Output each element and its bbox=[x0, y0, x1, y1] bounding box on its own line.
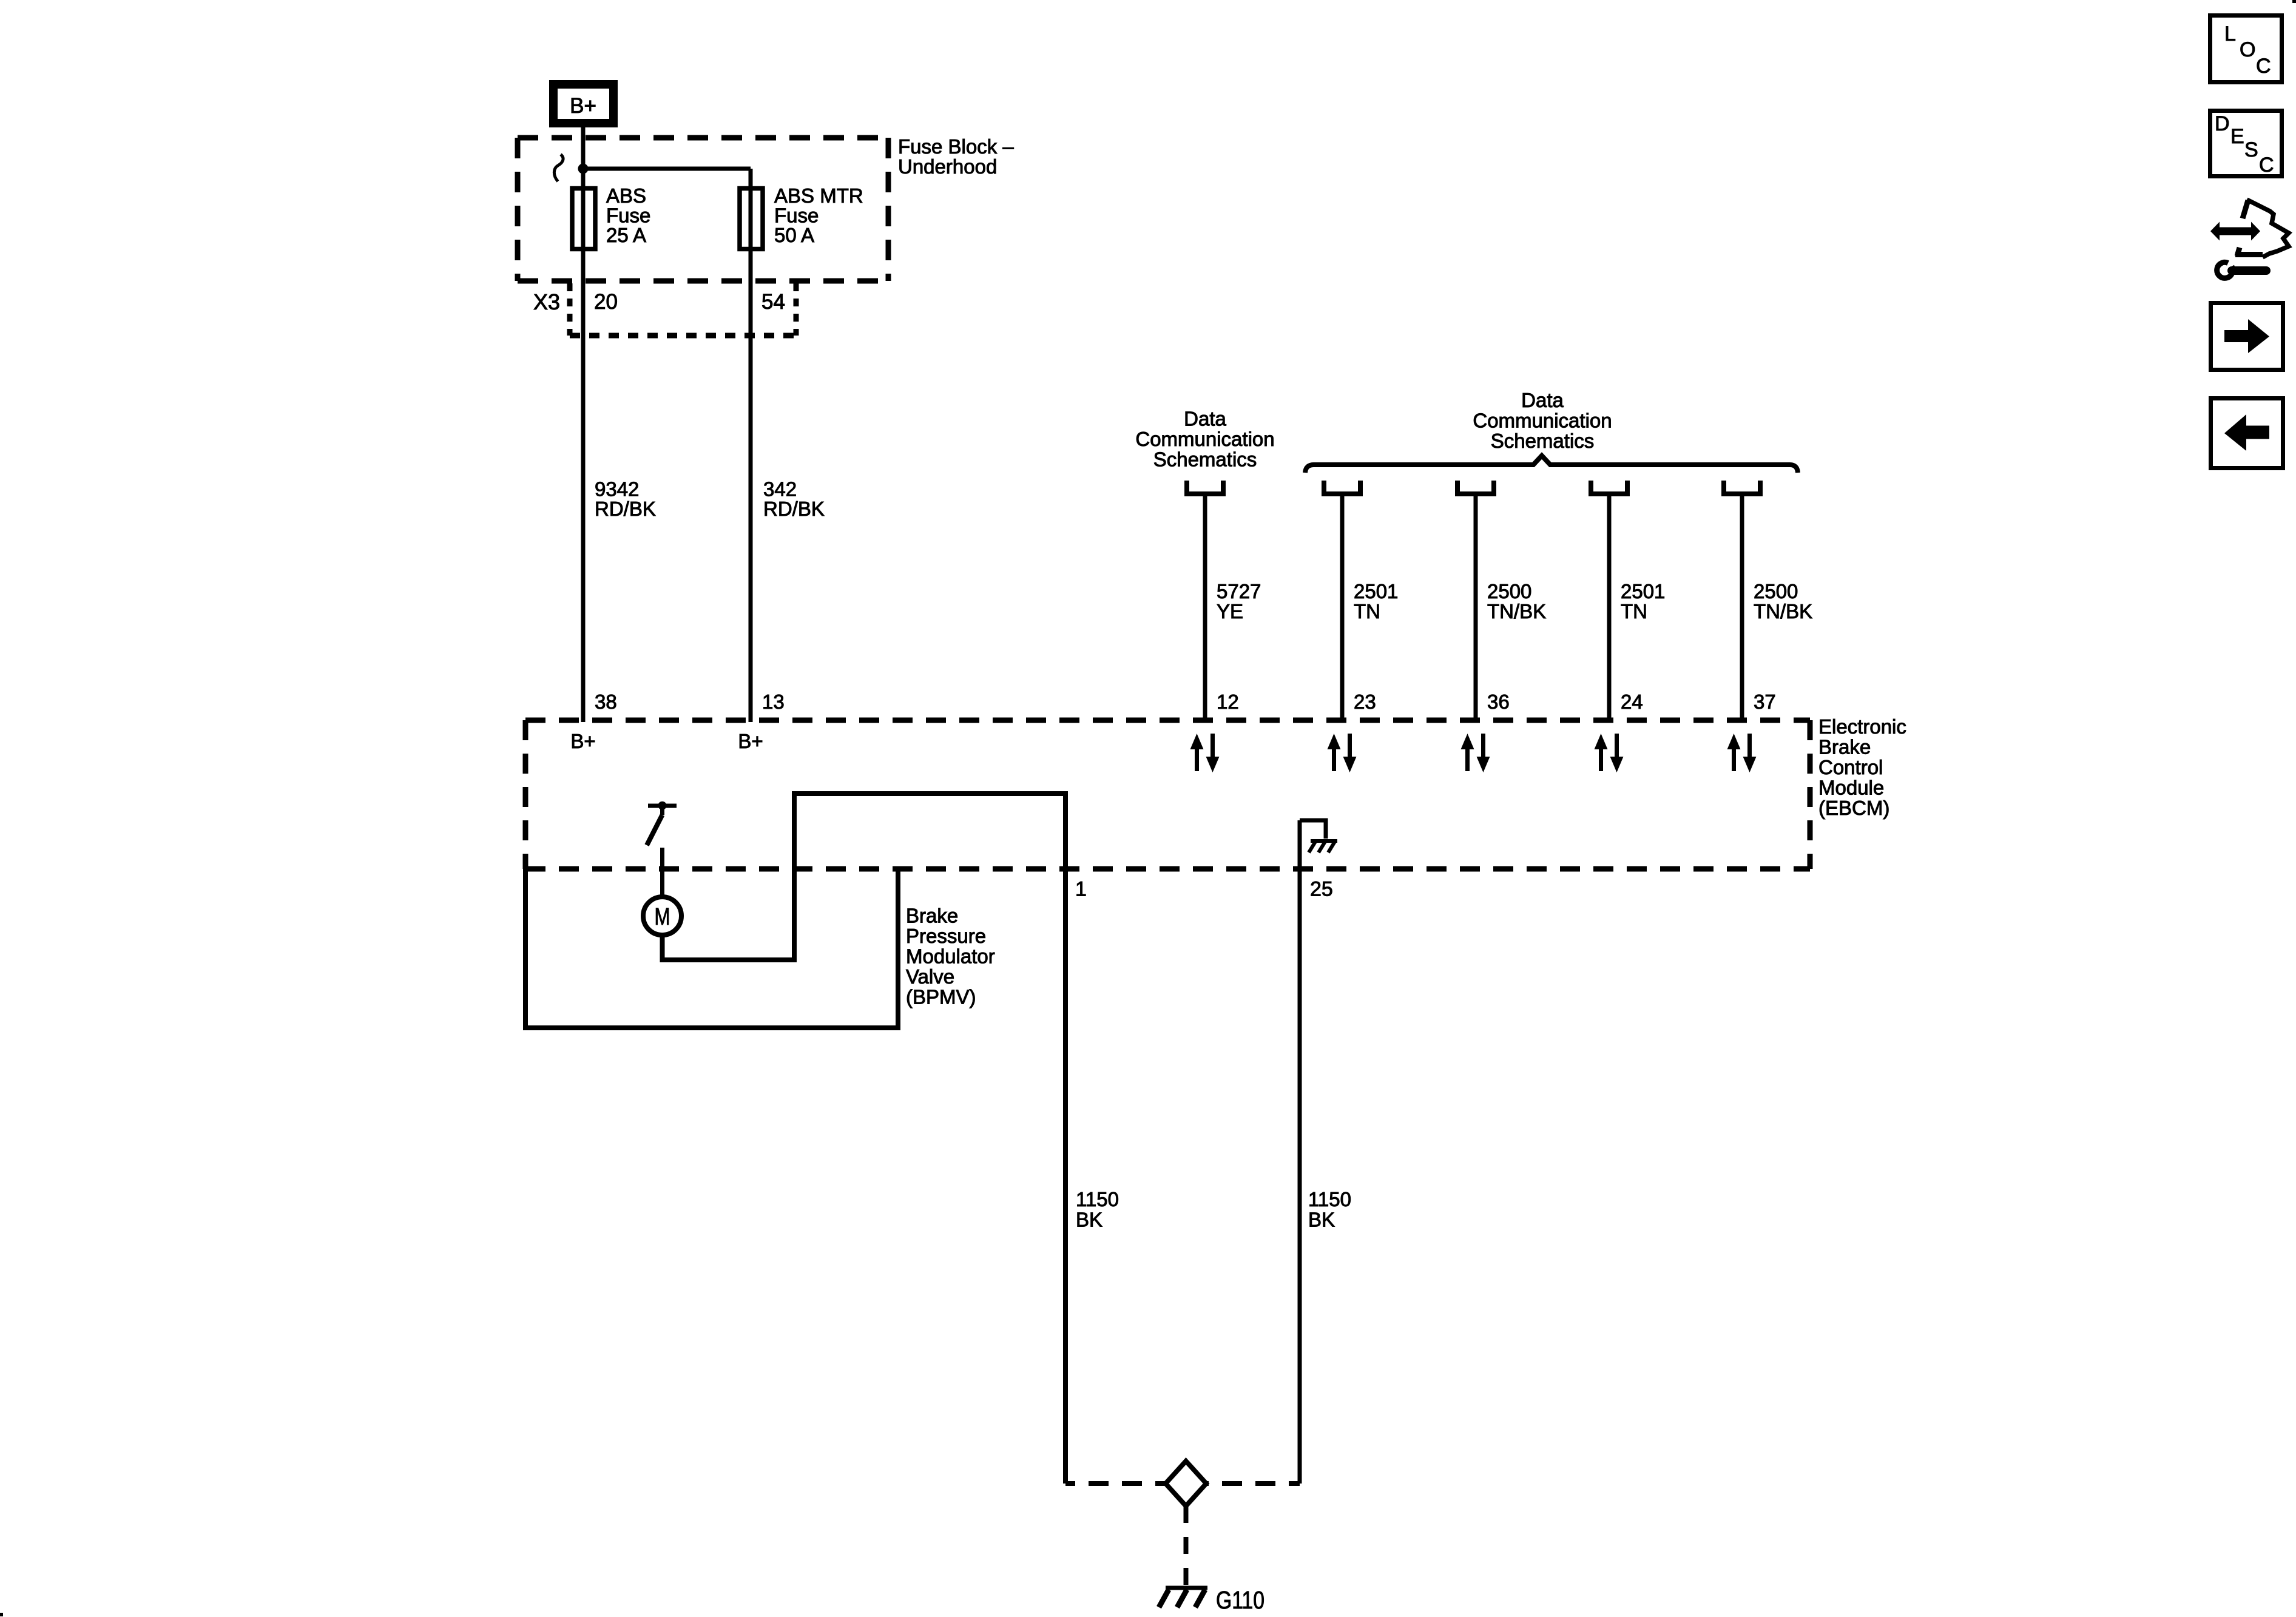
svg-text:Schematics: Schematics bbox=[1491, 430, 1595, 452]
dashed drop splice to ground bbox=[1184, 1506, 1189, 1586]
svg-text:BK: BK bbox=[1076, 1209, 1102, 1231]
svg-text:O: O bbox=[2240, 38, 2255, 61]
wire from B+ down through ABS fuse to pin 38 bbox=[581, 127, 586, 722]
svg-text:(EBCM): (EBCM) bbox=[1818, 797, 1889, 819]
svg-text:Control: Control bbox=[1818, 756, 1883, 778]
svg-text:B+: B+ bbox=[570, 730, 595, 752]
svg-text:1150: 1150 bbox=[1076, 1188, 1119, 1210]
EBCM dashed box bbox=[525, 720, 1810, 869]
pump motor switch (relay contact) bbox=[648, 804, 677, 808]
ground G110 symbol bbox=[1166, 1586, 1207, 1590]
svg-text:X3: X3 bbox=[533, 289, 560, 314]
svg-text:38: 38 bbox=[595, 690, 617, 713]
BPMV solid box bbox=[525, 869, 898, 1028]
fuse block bus curl symbol bbox=[554, 155, 563, 182]
svg-text:ABS MTR: ABS MTR bbox=[774, 184, 863, 207]
svg-text:Fuse Block –: Fuse Block – bbox=[898, 135, 1014, 158]
svg-text:TN/BK: TN/BK bbox=[1754, 600, 1812, 623]
svg-text:2500: 2500 bbox=[1487, 580, 1531, 603]
svg-text:24: 24 bbox=[1621, 690, 1643, 713]
svg-text:B+: B+ bbox=[738, 730, 763, 752]
nav icon diagnostic (double arrow, connector outline, wrench) bbox=[2210, 200, 2289, 278]
svg-text:(BPMV): (BPMV) bbox=[906, 986, 976, 1008]
dashed run pin1 wire to splice bbox=[1065, 1481, 1166, 1486]
splice diamond bbox=[1166, 1461, 1206, 1506]
wire from feed down through ABS MTR fuse to pin 13 bbox=[749, 169, 753, 722]
svg-text:Pressure: Pressure bbox=[906, 925, 986, 947]
wire junction dot bbox=[578, 164, 589, 174]
svg-text:2501: 2501 bbox=[1354, 580, 1398, 603]
svg-text:Fuse: Fuse bbox=[774, 204, 819, 227]
fuse ABS Fuse 25 A bbox=[572, 189, 595, 249]
svg-text:Brake: Brake bbox=[1818, 736, 1871, 758]
svg-text:50 A: 50 A bbox=[774, 224, 814, 246]
off-page connector for wire 2501 (second) bbox=[1591, 481, 1627, 494]
svg-text:Communication: Communication bbox=[1135, 428, 1274, 450]
wire 5727 YE bbox=[1203, 494, 1207, 723]
svg-text:Fuse: Fuse bbox=[606, 204, 650, 227]
svg-text:13: 13 bbox=[762, 690, 785, 713]
svg-text:Valve: Valve bbox=[906, 965, 954, 988]
wire 2500 TN/BK (first) bbox=[1474, 494, 1478, 723]
svg-text:M: M bbox=[655, 903, 670, 930]
svg-text:Schematics: Schematics bbox=[1153, 448, 1257, 471]
off-page connector for wire 2500 (second) bbox=[1724, 481, 1760, 494]
off-page connector for wire 5727 bbox=[1187, 481, 1223, 494]
bidirectional arrows pin 12 bbox=[1190, 734, 1220, 772]
svg-text:C: C bbox=[2259, 154, 2274, 177]
svg-text:36: 36 bbox=[1487, 690, 1510, 713]
svg-text:YE: YE bbox=[1217, 600, 1243, 623]
nav icon back arrow box bbox=[2211, 399, 2283, 468]
wire horizontal feed to ABS MTR fuse bbox=[583, 167, 751, 171]
wire 2501 TN (second) bbox=[1607, 494, 1612, 723]
svg-text:2500: 2500 bbox=[1754, 580, 1798, 603]
svg-text:G110: G110 bbox=[1216, 1586, 1264, 1614]
wire motor to pump loop bbox=[663, 794, 1066, 1484]
svg-text:S: S bbox=[2244, 138, 2258, 161]
svg-text:RD/BK: RD/BK bbox=[595, 498, 656, 520]
svg-text:25 A: 25 A bbox=[606, 224, 646, 246]
svg-text:12: 12 bbox=[1217, 690, 1239, 713]
svg-text:RD/BK: RD/BK bbox=[763, 498, 825, 520]
svg-text:37: 37 bbox=[1754, 690, 1776, 713]
brace over data wires bbox=[1305, 456, 1798, 473]
svg-text:1: 1 bbox=[1075, 878, 1087, 901]
svg-text:Module: Module bbox=[1818, 777, 1884, 799]
svg-text:1150: 1150 bbox=[1308, 1188, 1351, 1210]
svg-text:E: E bbox=[2230, 125, 2244, 148]
motor M bbox=[643, 897, 681, 935]
svg-text:25: 25 bbox=[1310, 878, 1333, 901]
wire switch to motor bbox=[660, 848, 664, 897]
bidirectional arrows pin 24 bbox=[1595, 734, 1624, 772]
svg-text:9342: 9342 bbox=[595, 478, 639, 501]
svg-text:2501: 2501 bbox=[1621, 580, 1665, 603]
internal ground hook bbox=[1300, 820, 1326, 839]
svg-text:23: 23 bbox=[1354, 690, 1376, 713]
page corner mark top right bbox=[2292, 0, 2296, 3]
svg-text:Communication: Communication bbox=[1473, 410, 1612, 432]
off-page connector for wire 2500 (first) bbox=[1457, 481, 1494, 494]
fuse block - underhood dashed box bbox=[518, 138, 888, 281]
internal chassis ground mark bbox=[1311, 839, 1337, 843]
svg-text:L: L bbox=[2224, 22, 2236, 46]
svg-text:342: 342 bbox=[763, 478, 797, 501]
fuse ABS MTR Fuse 50 A bbox=[740, 189, 763, 249]
svg-text:Data: Data bbox=[1521, 389, 1564, 411]
wire 2501 TN (first) bbox=[1340, 494, 1345, 723]
svg-text:ABS: ABS bbox=[606, 184, 646, 207]
svg-text:TN/BK: TN/BK bbox=[1487, 600, 1546, 623]
dashed run pin25 wire to splice bbox=[1206, 1481, 1300, 1486]
svg-text:B+: B+ bbox=[570, 94, 596, 118]
svg-text:C: C bbox=[2256, 55, 2271, 78]
connector X3 dashed box bbox=[570, 283, 796, 336]
svg-text:TN: TN bbox=[1621, 600, 1647, 623]
svg-text:Brake: Brake bbox=[906, 905, 958, 927]
internal ground wire pin 25 bbox=[1298, 820, 1302, 1484]
nav icon LOC box bbox=[2210, 16, 2282, 83]
svg-text:54: 54 bbox=[761, 290, 785, 314]
svg-text:Modulator: Modulator bbox=[906, 945, 995, 968]
svg-text:20: 20 bbox=[594, 290, 618, 314]
svg-text:Data: Data bbox=[1184, 408, 1226, 430]
nav icon forward arrow box bbox=[2211, 303, 2283, 370]
page corner mark bottom left bbox=[0, 1613, 3, 1616]
svg-text:Electronic: Electronic bbox=[1818, 715, 1906, 738]
svg-text:BK: BK bbox=[1308, 1209, 1335, 1231]
bidirectional arrows pin 36 bbox=[1461, 734, 1490, 772]
off-page connector for wire 2501 (first) bbox=[1324, 481, 1360, 494]
wire 2500 TN/BK (second) bbox=[1740, 494, 1744, 723]
bidirectional arrows pin 23 bbox=[1328, 734, 1357, 772]
svg-text:TN: TN bbox=[1354, 600, 1380, 623]
svg-text:Underhood: Underhood bbox=[898, 155, 997, 178]
nav icon DESC box bbox=[2210, 111, 2282, 177]
B+ power symbol box bbox=[553, 84, 613, 123]
svg-text:D: D bbox=[2215, 112, 2230, 135]
bidirectional arrows pin 37 bbox=[1727, 734, 1757, 772]
svg-text:5727: 5727 bbox=[1217, 580, 1261, 603]
